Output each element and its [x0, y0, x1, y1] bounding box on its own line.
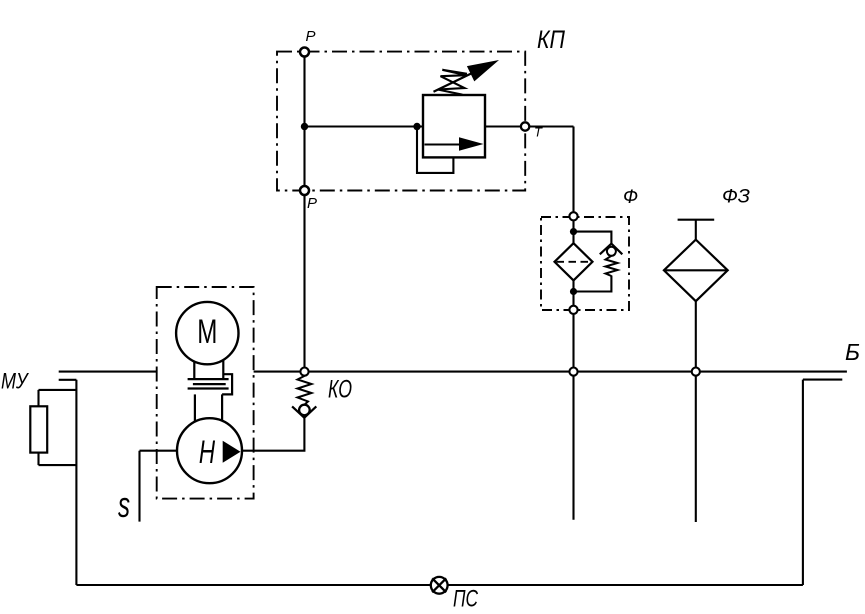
motor-pump shaft lower [194, 394, 196, 422]
breather FZ top bar [678, 219, 715, 221]
coupling line top [188, 378, 229, 380]
pump output triangle [223, 441, 241, 463]
port circle filter top [569, 212, 577, 220]
junction dot on P line [301, 123, 308, 130]
wire: suction drop to S [138, 451, 140, 522]
coupling bracket [222, 374, 232, 394]
filter diamond [555, 243, 593, 280]
adjustment arrow through spring [434, 69, 482, 92]
spring of relief valve [438, 70, 467, 95]
relief valve square U KP [423, 95, 485, 157]
breather FZ diamond mid line [664, 269, 728, 271]
svg-text:ПС: ПС [453, 586, 478, 613]
port circle T [521, 122, 529, 130]
svg-text:P: P [306, 28, 316, 45]
svg-text:Ф: Ф [623, 187, 638, 208]
filter bypass branch wire [574, 232, 612, 244]
junction dot filter top [570, 228, 577, 235]
check valve KO seat (tip down) [292, 406, 316, 417]
enclosure box pump unit (dash-dot) [157, 287, 254, 499]
drain valve PS cross [432, 578, 446, 592]
bypass check valve spring [606, 256, 618, 276]
junction dot at valve inlet [413, 123, 420, 130]
bypass check valve ball [607, 247, 616, 256]
wire: vertical drop from T line to filter F [572, 127, 574, 313]
wire: bottom drain line [76, 584, 803, 586]
wire: pump suction line [140, 450, 243, 452]
port circle filter bottom [569, 306, 577, 314]
svg-text:P: P [307, 195, 317, 212]
MU restrictor rectangle [30, 406, 47, 452]
wire: KO to pump output corner [242, 418, 304, 451]
svg-text:КП: КП [537, 26, 566, 54]
svg-text:s: s [118, 484, 130, 525]
port circle KO on tank line [300, 368, 308, 376]
wire: left drop from MU bracket to drain line [75, 380, 77, 585]
coupling line middle [193, 383, 226, 385]
wire: P line vertical (top P port down to tank line) [303, 52, 305, 372]
pump H circle [177, 418, 242, 483]
pilot loop under relief valve [417, 127, 453, 173]
svg-text:МУ: МУ [1, 369, 29, 394]
svg-text:Б: Б [845, 339, 860, 365]
tank line B left segment [59, 371, 157, 373]
tank line B right segment [254, 371, 847, 373]
svg-text:ФЗ: ФЗ [722, 187, 750, 208]
coupling line bottom [188, 387, 229, 389]
arrow inside relief valve [425, 143, 462, 145]
port circle P bottom [300, 186, 309, 195]
port circle breather on tank line [692, 368, 700, 376]
check valve KO ball [299, 405, 310, 416]
port circle P top [300, 48, 309, 57]
enclosure box F (dash-dot) [541, 217, 629, 310]
motor M circle [176, 302, 238, 364]
svg-text:Н: Н [199, 434, 215, 470]
filter F vertical below box to tank interior [572, 312, 574, 520]
bypass check valve seat (tip up) [600, 244, 623, 255]
wire: valve square to T port to filter drop [485, 125, 574, 127]
wire: KP internal horizontal from P line to valve square [305, 125, 424, 127]
port circle filter on tank line [569, 368, 577, 376]
breather FZ stem bottom into tank [695, 301, 697, 522]
MU loop bottom wire [39, 464, 77, 466]
breather FZ stem top [695, 220, 697, 241]
wire: right drop to drain line [802, 380, 804, 585]
svg-text:КО: КО [328, 376, 352, 404]
MU loop top wire [39, 389, 77, 391]
check valve KO spring [298, 376, 312, 405]
svg-text:T: T [534, 125, 543, 140]
drain valve PS circle [431, 577, 448, 594]
filter diamond dashed element [557, 261, 591, 263]
breather FZ diamond [664, 240, 728, 302]
junction dot filter bottom [570, 288, 577, 295]
tank bracket left [59, 379, 77, 381]
MU loop left wire bottom [37, 453, 39, 466]
svg-text:М: М [197, 313, 217, 351]
MU loop left wire top [37, 390, 39, 406]
motor-pump shaft upper [193, 358, 195, 379]
enclosure box KP (dash-dot) [277, 52, 525, 191]
tank bracket right [803, 379, 842, 381]
